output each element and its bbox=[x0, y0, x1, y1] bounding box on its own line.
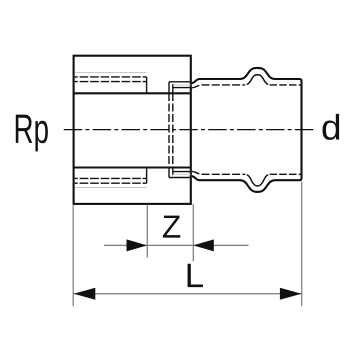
tube stop line 1 (x=169) bbox=[168, 82, 170, 178]
dimension Z arrow left bbox=[127, 239, 148, 251]
hidden tube wall top mid bbox=[173, 84, 191, 86]
hidden tube wall top inner bbox=[173, 87, 191, 89]
socket bore edge top bbox=[74, 92, 191, 94]
hidden tube wall bottom inner bbox=[173, 171, 191, 173]
label L bbox=[188, 264, 203, 287]
dimension Z line bbox=[104, 244, 249, 246]
thread faint line bottom bbox=[75, 186, 147, 188]
thread dashed line bottom inner bbox=[75, 177, 147, 179]
label Rp bbox=[16, 115, 48, 152]
hidden tube wall top outer bbox=[169, 81, 191, 83]
press end inner wall dashed top bbox=[192, 85, 246, 88]
thread dashed line top inner bbox=[75, 81, 147, 83]
label d bbox=[323, 114, 340, 140]
centerline (axis) bbox=[64, 129, 315, 131]
hidden tube wall bottom outer bbox=[169, 177, 191, 179]
dimension L extension line right bbox=[301, 182, 303, 307]
dimension L arrow left bbox=[74, 288, 96, 300]
label Z bbox=[163, 216, 180, 238]
tube stop line 2 (x=172.8) bbox=[172, 84, 174, 175]
dimension Z arrow right bbox=[193, 239, 214, 251]
dimension L extension line left bbox=[72, 205, 74, 307]
thread end vertical top bbox=[146, 77, 148, 93]
thread faint line top bbox=[75, 72, 147, 74]
dimension L arrow right bbox=[280, 288, 302, 300]
socket bore edge bottom bbox=[74, 166, 191, 168]
press end inner wall dashed bottom bbox=[192, 171, 246, 174]
hidden tube wall bottom mid bbox=[173, 173, 191, 175]
dimension L line bbox=[74, 293, 302, 295]
dimension Z extension line left bbox=[146, 205, 148, 258]
thread dashed line bottom outer bbox=[75, 182, 147, 184]
dimension Z extension line right bbox=[192, 204, 194, 261]
socket body outer rectangle bbox=[74, 56, 191, 204]
thread dashed line top outer bbox=[75, 76, 147, 78]
thread end vertical bottom bbox=[146, 167, 148, 183]
press end outer profile top bbox=[192, 68, 302, 192]
